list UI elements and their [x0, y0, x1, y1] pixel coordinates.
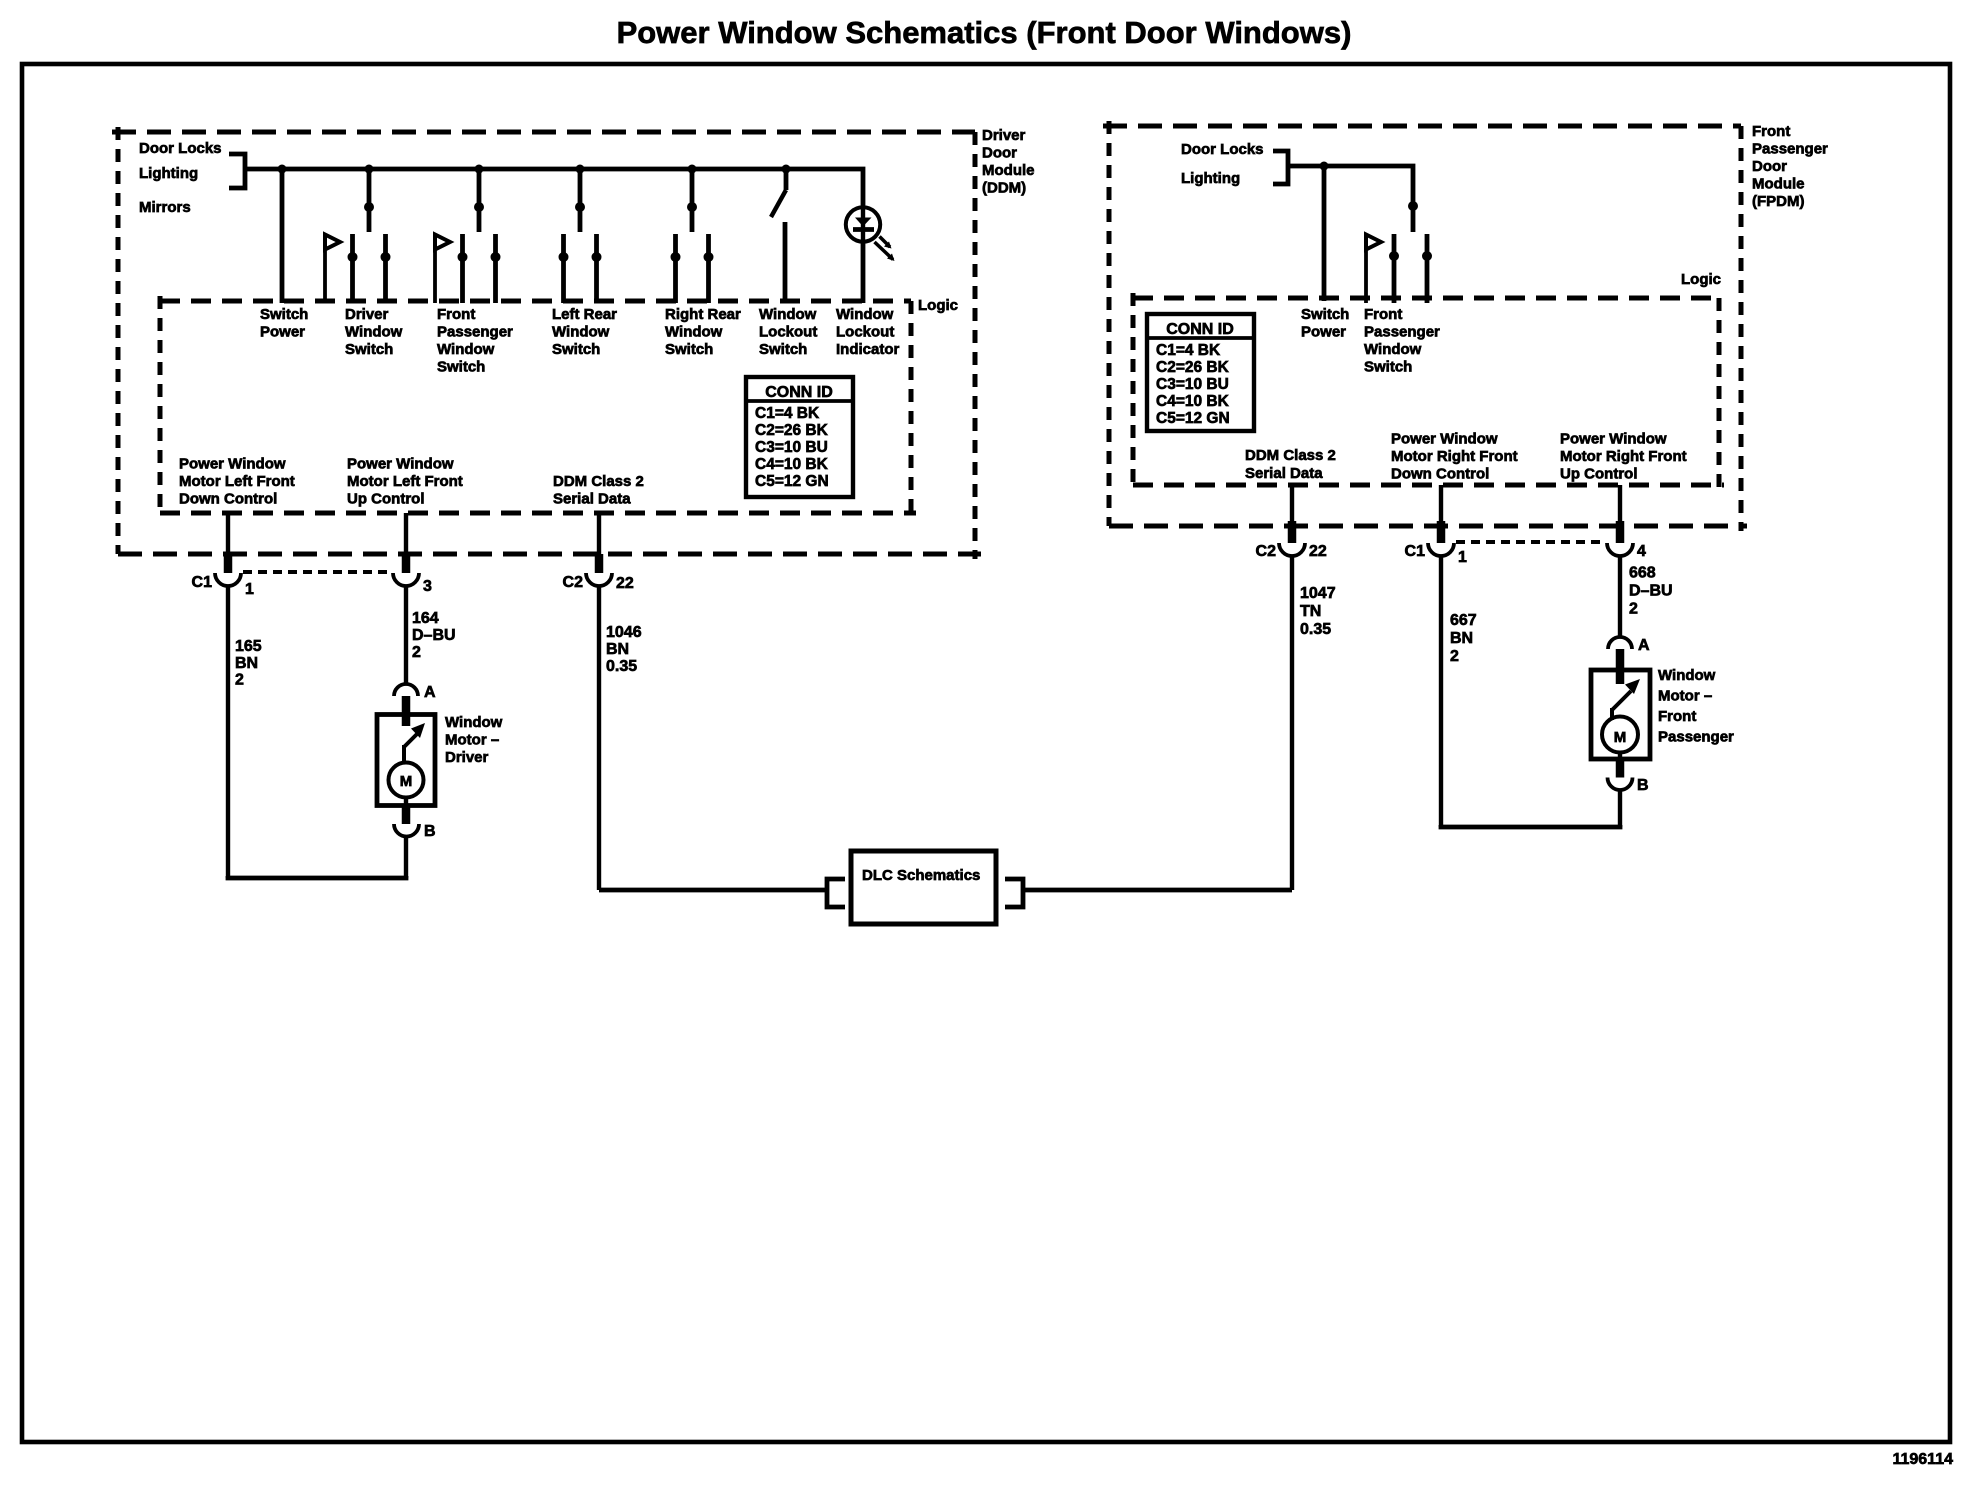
svg-text:CONN ID: CONN ID: [765, 384, 833, 401]
svg-text:22: 22: [1309, 543, 1327, 560]
svg-text:DLC Schematics: DLC Schematics: [862, 867, 980, 884]
svg-text:Door: Door: [982, 145, 1017, 162]
svg-text:D–BU: D–BU: [412, 627, 456, 644]
svg-text:Switch: Switch: [260, 306, 308, 323]
svg-text:Door Locks: Door Locks: [1181, 141, 1264, 158]
svg-text:Motor –: Motor –: [445, 732, 499, 749]
svg-text:BN: BN: [1450, 630, 1473, 647]
svg-text:Passenger: Passenger: [437, 324, 513, 341]
svg-text:Indicator: Indicator: [836, 341, 900, 358]
svg-text:C1: C1: [1405, 543, 1426, 560]
svg-text:2: 2: [1450, 648, 1459, 665]
svg-text:Module: Module: [1752, 176, 1805, 193]
svg-text:Lighting: Lighting: [139, 165, 198, 182]
svg-text:Motor Left Front: Motor Left Front: [179, 473, 295, 490]
svg-text:Passenger: Passenger: [1364, 324, 1440, 341]
svg-text:M: M: [1614, 729, 1627, 746]
svg-text:Power: Power: [260, 324, 305, 341]
svg-text:Window: Window: [445, 714, 503, 731]
svg-text:Front: Front: [1658, 708, 1696, 725]
svg-text:(DDM): (DDM): [982, 180, 1026, 197]
svg-text:Door Locks: Door Locks: [139, 140, 222, 157]
svg-text:4: 4: [1637, 543, 1646, 560]
svg-text:C2=26 BK: C2=26 BK: [1156, 359, 1230, 376]
svg-text:M: M: [400, 773, 413, 790]
svg-text:Left Rear: Left Rear: [552, 306, 617, 323]
svg-text:Window: Window: [345, 324, 403, 341]
svg-text:1047: 1047: [1300, 585, 1336, 602]
svg-text:B: B: [424, 823, 436, 840]
svg-text:Switch: Switch: [759, 341, 807, 358]
svg-text:C4=10 BK: C4=10 BK: [1156, 393, 1230, 410]
svg-text:Driver: Driver: [345, 306, 389, 323]
svg-text:Front: Front: [1752, 123, 1790, 140]
svg-text:Passenger: Passenger: [1752, 141, 1828, 158]
svg-text:1196114: 1196114: [1892, 1451, 1953, 1468]
svg-text:165: 165: [235, 638, 262, 655]
svg-text:D–BU: D–BU: [1629, 583, 1673, 600]
svg-text:Up Control: Up Control: [1560, 466, 1637, 483]
svg-text:C2=26 BK: C2=26 BK: [755, 422, 829, 439]
svg-text:Switch: Switch: [1301, 306, 1349, 323]
svg-text:A: A: [1638, 637, 1650, 654]
svg-text:Passenger: Passenger: [1658, 729, 1734, 746]
svg-text:C1: C1: [192, 574, 213, 591]
svg-text:Switch: Switch: [665, 341, 713, 358]
svg-text:Power: Power: [1301, 324, 1346, 341]
svg-text:Down Control: Down Control: [179, 491, 277, 508]
svg-text:Driver: Driver: [445, 749, 489, 766]
svg-text:Motor Right Front: Motor Right Front: [1391, 448, 1518, 465]
svg-text:Power Window Schematics (Front: Power Window Schematics (Front Door Wind…: [617, 15, 1352, 50]
svg-text:Window: Window: [836, 306, 894, 323]
svg-text:Serial Data: Serial Data: [1245, 465, 1323, 482]
svg-text:C4=10 BK: C4=10 BK: [755, 456, 829, 473]
svg-text:Power Window: Power Window: [1560, 431, 1667, 448]
svg-text:Front: Front: [1364, 306, 1402, 323]
svg-text:22: 22: [616, 575, 634, 592]
svg-text:C5=12 GN: C5=12 GN: [755, 473, 829, 490]
svg-text:Lighting: Lighting: [1181, 170, 1240, 187]
svg-text:Down Control: Down Control: [1391, 466, 1489, 483]
svg-text:(FPDM): (FPDM): [1752, 193, 1805, 210]
svg-text:C2: C2: [1256, 543, 1277, 560]
svg-text:Lockout: Lockout: [759, 324, 817, 341]
svg-text:DDM Class 2: DDM Class 2: [1245, 447, 1336, 464]
svg-text:0.35: 0.35: [1300, 621, 1331, 638]
svg-text:Motor Left Front: Motor Left Front: [347, 473, 463, 490]
svg-text:B: B: [1637, 777, 1649, 794]
svg-text:C3=10 BU: C3=10 BU: [755, 439, 828, 456]
svg-text:Window: Window: [437, 341, 495, 358]
svg-text:Motor –: Motor –: [1658, 688, 1712, 705]
svg-text:BN: BN: [606, 641, 629, 658]
svg-text:Power Window: Power Window: [179, 456, 286, 473]
svg-text:Window: Window: [1658, 667, 1716, 684]
svg-text:Switch: Switch: [345, 341, 393, 358]
svg-text:Power Window: Power Window: [1391, 431, 1498, 448]
svg-text:164: 164: [412, 610, 439, 627]
svg-text:Power Window: Power Window: [347, 456, 454, 473]
svg-text:668: 668: [1629, 565, 1656, 582]
svg-text:BN: BN: [235, 655, 258, 672]
svg-text:2: 2: [235, 672, 244, 689]
svg-text:Up Control: Up Control: [347, 491, 424, 508]
svg-text:C3=10 BU: C3=10 BU: [1156, 376, 1229, 393]
svg-text:C1=4 BK: C1=4 BK: [755, 405, 820, 422]
svg-text:1: 1: [245, 581, 254, 598]
svg-text:Driver: Driver: [982, 127, 1026, 144]
svg-text:Window: Window: [665, 324, 723, 341]
svg-text:C5=12 GN: C5=12 GN: [1156, 410, 1230, 427]
svg-text:Mirrors: Mirrors: [139, 199, 191, 216]
svg-text:2: 2: [1629, 601, 1638, 618]
svg-text:CONN ID: CONN ID: [1166, 321, 1234, 338]
svg-text:Serial Data: Serial Data: [553, 491, 631, 508]
svg-text:Window: Window: [552, 324, 610, 341]
svg-text:Motor Right Front: Motor Right Front: [1560, 448, 1687, 465]
svg-text:1: 1: [1458, 549, 1467, 566]
svg-text:C2: C2: [563, 574, 584, 591]
svg-text:C1=4 BK: C1=4 BK: [1156, 342, 1221, 359]
svg-text:Front: Front: [437, 306, 475, 323]
svg-text:Switch: Switch: [437, 359, 485, 376]
svg-text:2: 2: [412, 644, 421, 661]
svg-text:DDM Class 2: DDM Class 2: [553, 473, 644, 490]
svg-text:667: 667: [1450, 612, 1477, 629]
svg-text:Lockout: Lockout: [836, 324, 894, 341]
svg-text:0.35: 0.35: [606, 658, 637, 675]
svg-text:Module: Module: [982, 162, 1035, 179]
svg-text:Switch: Switch: [1364, 359, 1412, 376]
svg-text:TN: TN: [1300, 603, 1321, 620]
svg-text:3: 3: [423, 578, 432, 595]
svg-text:Window: Window: [1364, 341, 1422, 358]
svg-text:Window: Window: [759, 306, 817, 323]
svg-text:Logic: Logic: [1681, 271, 1721, 288]
svg-text:Right Rear: Right Rear: [665, 306, 741, 323]
svg-text:A: A: [424, 684, 436, 701]
svg-text:Door: Door: [1752, 158, 1787, 175]
svg-text:Switch: Switch: [552, 341, 600, 358]
svg-text:1046: 1046: [606, 624, 642, 641]
svg-text:Logic: Logic: [918, 297, 958, 314]
